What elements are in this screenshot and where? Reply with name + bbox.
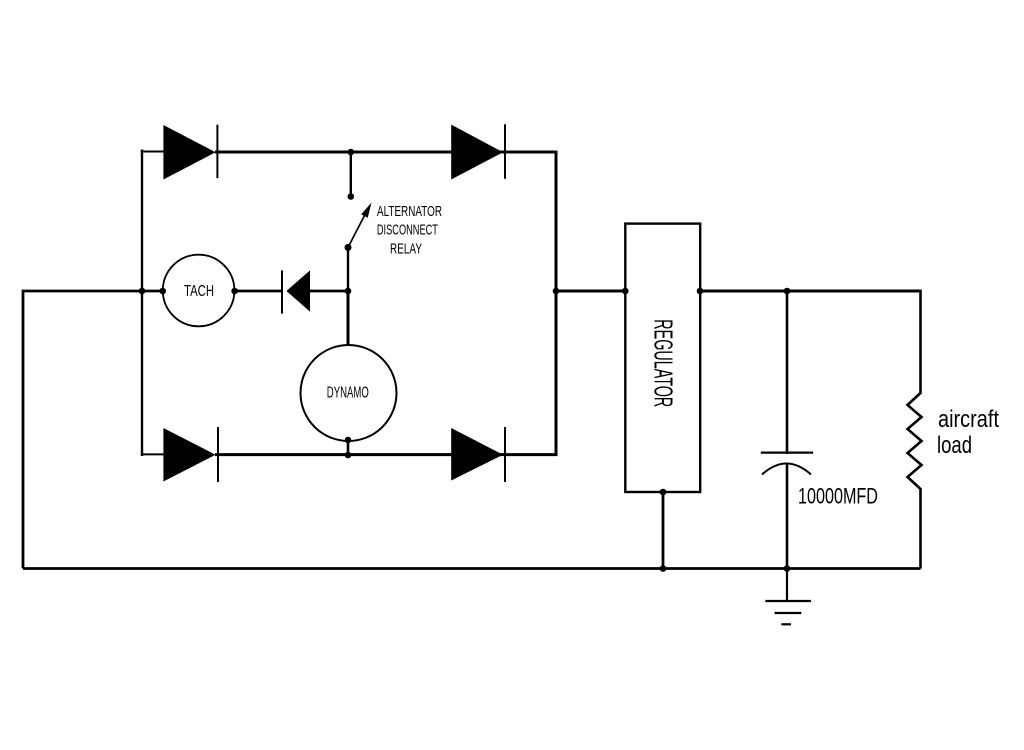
label: ALTERNATOR DISCONNECT RELAY [377,204,442,258]
svg-text:10000MFD: 10000MFD [798,484,878,509]
blocking diode to tach (points left) [282,270,310,313]
node: regulator right terminal [697,288,704,295]
wire: far-left down rail [22,290,25,569]
node: left rail / mid bus junction [139,288,146,295]
svg-text:aircraft: aircraft [938,406,999,433]
wire: TACH to blocking diode [235,290,282,293]
svg-text:RELAY: RELAY [390,242,422,258]
diode bottom-right of bridge [451,427,505,482]
svg-text:DYNAMO: DYNAMO [327,385,369,402]
wire: relay node down to dynamo [347,291,350,346]
capacitor C1 10000MFD [761,291,813,569]
node: capacitor top junction [784,288,791,295]
diode top-right of bridge [451,124,505,179]
node: regulator return / ground bus junction [660,565,667,572]
svg-text:REGULATOR: REGULATOR [648,319,678,407]
wire: bottom bus of rectifier bridge [141,453,558,455]
node: right rail / output bus junction [553,288,560,295]
node: top bus / relay branch junction [348,149,355,156]
node: TACH right terminal [231,288,238,295]
tachometer TACH [163,255,235,327]
svg-text:ALTERNATOR: ALTERNATOR [377,204,442,220]
node: TACH left terminal [159,288,166,295]
wire: left rail of bridge [141,150,143,457]
ground symbol [765,569,811,625]
wire: mid bus far-left segment [23,290,163,293]
svg-text:TACH: TACH [184,283,214,300]
diode top-left of bridge [163,125,217,180]
svg-text:load: load [937,432,972,459]
wire: dynamo bottom to bottom bus [347,440,350,455]
dynamo DYNAMO [301,345,397,441]
node: capacitor bottom / ground junction [784,565,791,572]
wire: diode to relay branch node [310,290,348,293]
wire: top bus of rectifier bridge [141,151,558,154]
node: relay upper contact [348,193,355,200]
wire: bridge output to regulator [556,290,625,293]
node: mid bus / relay branch junction [345,288,352,295]
regulator box REGULATOR [625,224,700,492]
wire: regulator output bus to load [700,290,921,293]
wire: bottom ground bus [23,567,921,570]
diode bottom-left of bridge [163,427,218,482]
node: dynamo / bottom bus junction [345,452,352,459]
node: dynamo bottom terminal [345,437,352,444]
wire: relay branch lower segment down to mid bus [347,248,349,292]
node: regulator left terminal [622,288,629,295]
node: relay lower contact [345,244,352,251]
wire: regulator bottom return to ground bus [662,492,665,569]
resistor: aircraft load (zigzag) [908,290,922,569]
svg-text:DISCONNECT: DISCONNECT [377,223,438,239]
relay switch lever (alternator disconnect relay contact) [348,203,372,248]
label: aircraft load [937,406,999,459]
wire: right rail of bridge [555,151,558,457]
node: regulator bottom terminal [660,489,667,496]
wire: relay branch upper segment [350,152,352,197]
